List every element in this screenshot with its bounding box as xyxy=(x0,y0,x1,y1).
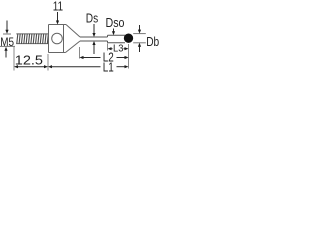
body outline xyxy=(49,25,67,53)
Db down arrow xyxy=(138,25,141,34)
ball center extension line xyxy=(128,44,130,69)
cone bottom edge xyxy=(66,41,81,53)
dim line L1 xyxy=(48,65,129,68)
stem Dso bottom edge xyxy=(108,42,126,44)
background xyxy=(0,0,160,74)
M5 down arrow xyxy=(5,21,8,34)
M5 up arrow xyxy=(4,47,7,58)
12.5 / L1 shared extension line xyxy=(47,54,49,71)
dim line L3 xyxy=(108,47,129,50)
Db up arrow xyxy=(138,43,141,52)
L3 left extension line xyxy=(107,44,109,51)
svg-text:Ds: Ds xyxy=(86,10,99,25)
dim line L2 xyxy=(80,56,129,59)
svg-text:11: 11 xyxy=(53,0,63,14)
svg-text:L3: L3 xyxy=(113,44,124,55)
step to Dso xyxy=(107,35,109,43)
svg-text:L1: L1 xyxy=(103,60,114,74)
Ds down arrow xyxy=(92,24,95,37)
stem Ds top edge xyxy=(80,36,108,38)
ball Db xyxy=(124,34,133,43)
svg-text:Dso: Dso xyxy=(106,15,125,30)
Ds up arrow xyxy=(92,41,95,54)
Dso down arrow xyxy=(112,29,115,36)
stem Ds bottom edge xyxy=(80,40,108,42)
Db bottom leader xyxy=(133,42,146,44)
svg-text:Db: Db xyxy=(146,34,159,49)
body circle xyxy=(52,33,63,44)
thread M5 top edge xyxy=(16,33,48,35)
thread M5 hatching xyxy=(17,34,49,44)
M5 top leader xyxy=(3,33,11,35)
stem Dso top edge xyxy=(108,34,126,36)
cone top edge xyxy=(66,25,80,38)
L2 left extension line xyxy=(79,47,81,59)
12.5 left extension line xyxy=(13,46,15,70)
dim line 12.5 xyxy=(14,65,48,68)
svg-text:12.5: 12.5 xyxy=(15,53,43,68)
Db top leader xyxy=(133,33,146,35)
M5 bottom leader xyxy=(0,45,15,47)
dim arrow 11 xyxy=(56,12,59,25)
thread M5 bottom edge xyxy=(16,43,48,45)
